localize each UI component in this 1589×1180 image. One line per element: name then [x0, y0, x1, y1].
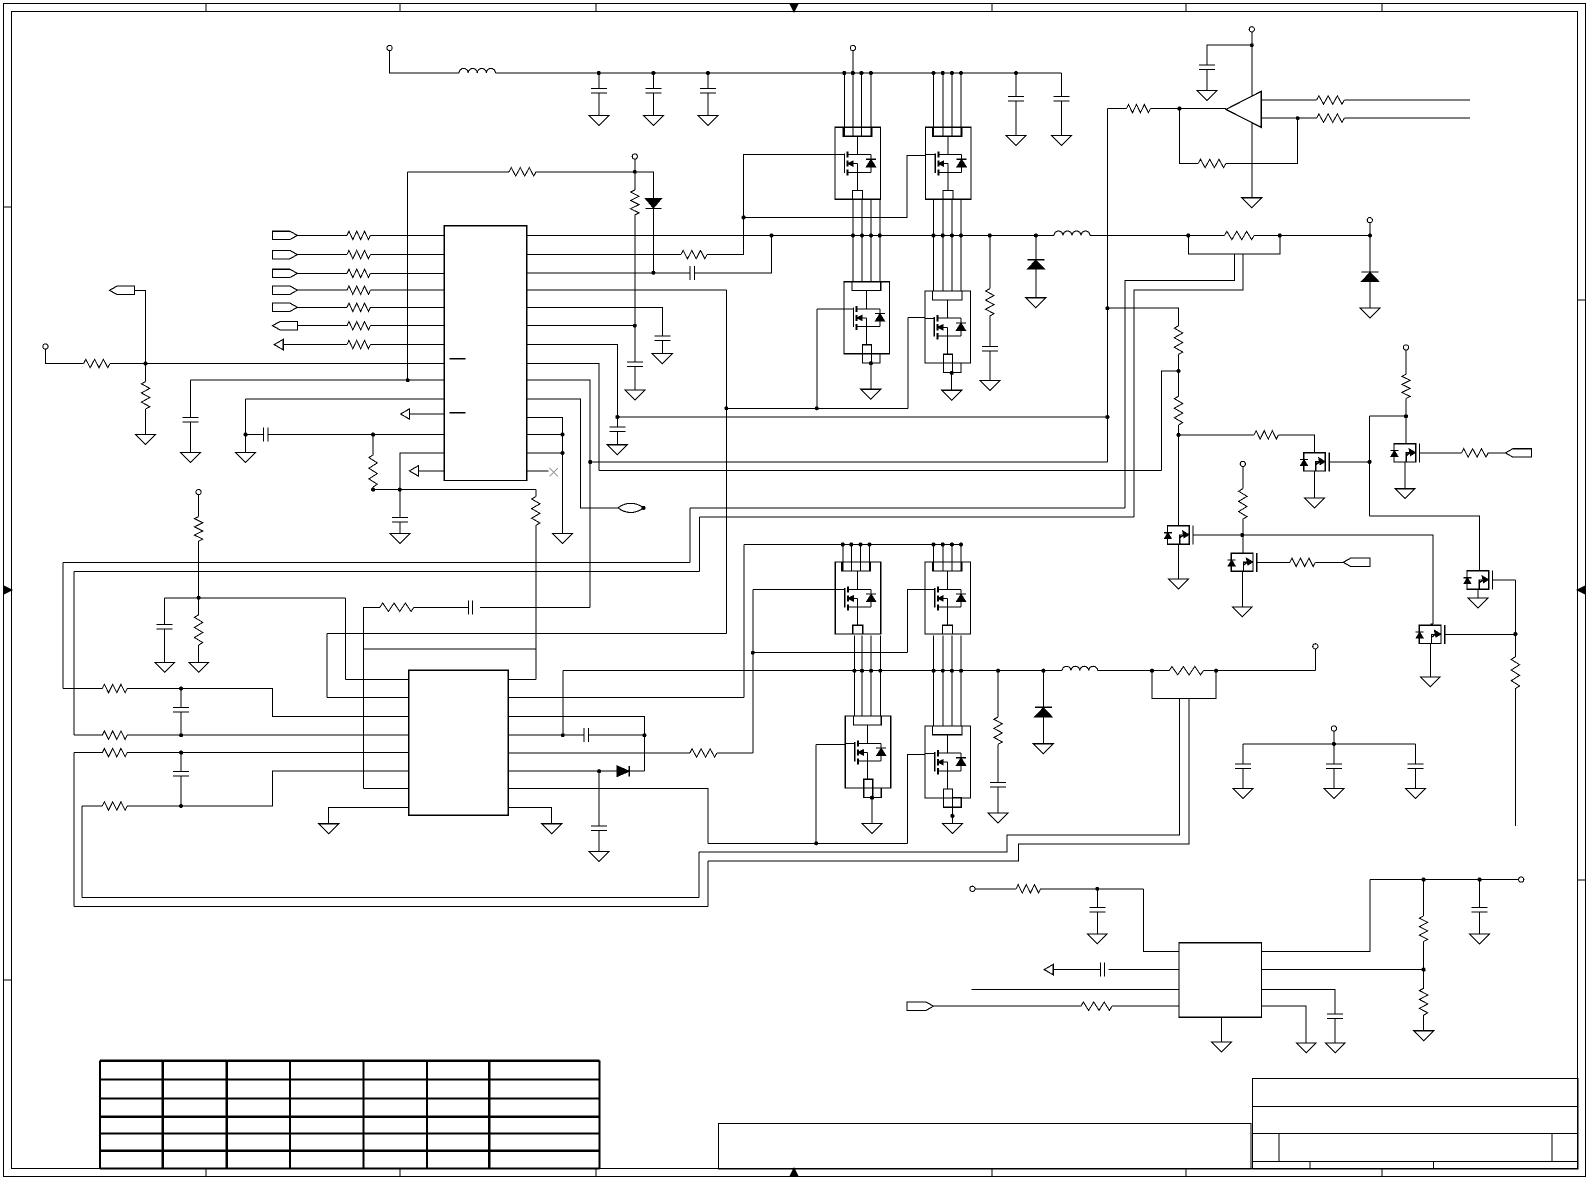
wire: [951, 373, 953, 390]
ground: [1305, 498, 1325, 508]
wire: [870, 635, 872, 716]
junction: [941, 234, 945, 238]
junction: [1105, 306, 1109, 310]
node terminal: [1313, 644, 1318, 649]
wire: [418, 470, 444, 472]
wire: [508, 717, 644, 736]
wire: [1042, 717, 1044, 744]
wire: [972, 989, 1180, 991]
wire: [399, 522, 401, 534]
capacitor C21: [990, 781, 1006, 783]
junction: [1422, 968, 1426, 972]
junction: [996, 669, 1000, 673]
wire: [535, 525, 537, 679]
junction: [615, 415, 619, 419]
wire: [1369, 416, 1371, 516]
junction: [988, 234, 992, 238]
wire: [908, 754, 925, 843]
junction: [851, 71, 855, 75]
wire: [414, 606, 468, 608]
wire: [81, 806, 83, 898]
resistor R48: [1081, 1002, 1112, 1010]
flag NRST triangle: [1044, 964, 1053, 974]
wire: [1329, 461, 1370, 463]
junction: [941, 669, 945, 673]
wire: [989, 351, 991, 381]
wire: [127, 771, 409, 806]
wire: [1220, 1017, 1222, 1042]
wire: [643, 735, 645, 771]
resistor R8: [84, 359, 110, 367]
wire: [527, 452, 563, 454]
transistor Q11: [1300, 452, 1329, 471]
flag GP1: [1343, 558, 1370, 566]
wire: [1178, 425, 1180, 526]
ground: [589, 852, 609, 862]
pin mark: [450, 412, 466, 414]
ground: [319, 824, 339, 834]
resistor R5: [347, 303, 370, 311]
junction: [244, 433, 248, 437]
wire: [815, 745, 817, 844]
wire: [268, 434, 444, 436]
resistor R31: [1317, 96, 1345, 104]
resistor R10: [681, 250, 707, 258]
wire: [634, 367, 636, 391]
wire: [1242, 535, 1433, 624]
inductor L1: [459, 68, 496, 73]
wire: [634, 159, 636, 190]
flag GP2: [1505, 449, 1531, 457]
wire: [997, 744, 999, 782]
wire: [842, 545, 844, 572]
flag PG: [907, 1002, 934, 1010]
wire: [860, 73, 862, 136]
wire: [190, 422, 192, 452]
junction: [179, 751, 183, 755]
wire: [283, 344, 347, 346]
wire: [1477, 589, 1479, 598]
wire: [326, 633, 328, 697]
wire: [997, 671, 999, 717]
junction: [642, 506, 646, 510]
wire: [1207, 45, 1252, 65]
junction: [932, 543, 936, 547]
wire: [1344, 117, 1470, 119]
wire: [1261, 99, 1316, 101]
resistor R1: [347, 231, 370, 239]
resistor R44: [1511, 657, 1519, 689]
junction: [842, 71, 846, 75]
wire: [870, 73, 872, 136]
wire: [1096, 912, 1098, 934]
wire: [408, 171, 509, 173]
wire: [588, 734, 644, 736]
wire: [74, 734, 103, 736]
wire: [1035, 236, 1037, 260]
wire: [997, 787, 999, 813]
junction: [860, 234, 864, 238]
wire: [1262, 990, 1336, 1015]
capacitor C17: [180, 689, 182, 708]
junction: [878, 234, 882, 238]
wire: [145, 364, 147, 382]
node VOUT terminal: [1519, 877, 1524, 882]
ground: [1324, 789, 1344, 799]
wire: [879, 635, 881, 716]
wire: [372, 435, 374, 455]
wire: [869, 545, 871, 572]
wire: [816, 744, 845, 746]
wire bus: [74, 570, 700, 572]
wire: [1423, 880, 1425, 916]
wire: [198, 495, 200, 517]
junction: [770, 234, 774, 238]
junction: [950, 669, 954, 673]
wire: [110, 363, 444, 365]
ground: [862, 823, 882, 833]
wire: [364, 607, 380, 788]
capacitor C25: [1099, 963, 1101, 977]
wire: [527, 289, 726, 291]
wire: [616, 417, 618, 427]
resistor R3: [347, 269, 370, 277]
junction: [950, 71, 954, 75]
flag OUT1: [273, 322, 298, 330]
ground: [1296, 1043, 1316, 1053]
wire: [1488, 452, 1505, 454]
ground: [1242, 198, 1262, 208]
wire: [951, 545, 953, 572]
ground: [1414, 1031, 1434, 1041]
wire bus: [74, 906, 708, 908]
wire: [527, 254, 681, 256]
wire: [843, 73, 845, 136]
wire: [562, 670, 564, 735]
wire: [1053, 969, 1100, 971]
wire: [744, 544, 963, 546]
ground: [643, 116, 663, 126]
capacitor C23: [1472, 906, 1488, 908]
wire: [1370, 516, 1480, 570]
wire: [373, 489, 536, 491]
wire: [1096, 889, 1098, 908]
wire: [527, 399, 618, 508]
resistor R15: [532, 497, 540, 526]
wire: [527, 272, 690, 274]
wire: [1150, 108, 1226, 110]
ground: [698, 116, 718, 126]
junction: [651, 71, 655, 75]
IC U2: [409, 670, 509, 815]
wire: [346, 678, 409, 680]
wire: [1369, 281, 1371, 308]
wire phase rail 2: [563, 670, 1062, 672]
wire: [694, 236, 771, 273]
wire: [852, 199, 854, 281]
wire: [753, 652, 908, 654]
node terminal: [1403, 345, 1408, 350]
transistor module Q2: [926, 127, 972, 199]
diode D3: [645, 199, 661, 209]
wire bus: [690, 507, 1125, 509]
resistor R23: [690, 749, 717, 757]
wire bus: [699, 516, 1134, 518]
wire: [1203, 670, 1315, 672]
resistor R20: [102, 731, 127, 739]
wire: [508, 752, 689, 754]
transistor Q9: [1164, 526, 1193, 545]
wire: [1370, 879, 1519, 881]
junction: [724, 406, 728, 410]
ground: [1468, 598, 1488, 608]
resistor R21: [102, 748, 127, 756]
capacitor C7: [1199, 64, 1215, 66]
diode D5: [1035, 706, 1052, 708]
wire: [527, 470, 549, 472]
wire: [1241, 572, 1243, 607]
junction: [406, 378, 410, 382]
resistor R36: [1174, 396, 1182, 425]
wire: [1152, 671, 1216, 699]
diode D4: [617, 766, 629, 776]
wire: [870, 363, 872, 389]
resistor R43: [1462, 449, 1489, 457]
capacitor: [1415, 744, 1417, 764]
wire: [245, 399, 247, 452]
wire: [960, 635, 962, 726]
wire: [989, 236, 991, 289]
wire: [536, 171, 635, 173]
no-connect: [549, 468, 557, 476]
inductor L2: [1054, 231, 1090, 236]
wire: [1430, 623, 1433, 625]
junction: [1332, 742, 1336, 746]
resistor R42: [1402, 374, 1410, 398]
wire: [707, 861, 709, 907]
resistor R13: [631, 190, 639, 215]
wire: [508, 807, 551, 823]
resistor R14: [369, 455, 377, 487]
wire: [1370, 415, 1406, 417]
flag FB triangle: [401, 409, 410, 419]
wire: [1243, 743, 1416, 745]
wire: [1143, 889, 1179, 952]
wire: [127, 734, 409, 736]
junction: [633, 170, 637, 174]
wire: [1423, 1015, 1425, 1031]
wire: [527, 325, 635, 327]
junction: [814, 841, 818, 845]
node VIN terminal: [970, 886, 975, 891]
wire: [297, 289, 347, 291]
junction: [859, 543, 863, 547]
wire: [400, 453, 445, 490]
wire: [852, 73, 854, 136]
wire: [1420, 452, 1462, 454]
wire: [951, 635, 953, 726]
wire: [743, 545, 745, 698]
resistor R46: [1419, 916, 1427, 942]
wire: [74, 752, 103, 754]
junction: [868, 543, 872, 547]
resistor R16: [380, 603, 414, 611]
junction: [869, 669, 873, 673]
wire: [45, 349, 83, 363]
ground: [1197, 91, 1217, 101]
ferrite bead FB1: [618, 503, 644, 512]
wire: [717, 752, 753, 754]
wire: [198, 598, 200, 615]
wire: [345, 598, 347, 680]
wire: [297, 272, 347, 274]
wire: [527, 434, 563, 436]
node terminal: [1240, 461, 1245, 466]
wire: [1179, 109, 1198, 164]
transistor module Q5: [835, 562, 881, 634]
junction: [561, 433, 565, 437]
wire: [933, 635, 935, 726]
wire: [951, 199, 953, 291]
wire: [708, 699, 1189, 861]
ground: [553, 534, 573, 544]
ground: [136, 434, 156, 444]
wire: [689, 508, 691, 563]
junction: [1250, 43, 1254, 47]
IC U4 regulator: [1179, 943, 1262, 1018]
node VDRAIN1 terminal: [850, 45, 855, 50]
wire: [698, 852, 700, 898]
wire: [699, 699, 1179, 853]
wire: [708, 842, 908, 844]
junction: [561, 733, 565, 737]
ground: [942, 823, 962, 833]
resistor R7: [347, 340, 370, 348]
wire: [860, 545, 862, 572]
junction: [841, 543, 845, 547]
wire: [1404, 462, 1406, 489]
wire: [1429, 644, 1431, 677]
wire: [1262, 969, 1424, 971]
flag IN1: [272, 231, 297, 239]
junction: [1177, 369, 1181, 373]
wire: [908, 590, 925, 653]
wire: [410, 413, 445, 415]
wire: [508, 696, 744, 698]
capacitor C18: [180, 753, 182, 772]
ground: [980, 381, 1000, 391]
junction: [869, 71, 873, 75]
wire: [1445, 633, 1516, 635]
capacitor: [1242, 744, 1244, 764]
wire: [407, 172, 409, 380]
wire: [164, 629, 166, 662]
wire: [1514, 689, 1516, 826]
wire: [951, 807, 953, 823]
wire: [298, 325, 348, 327]
wire: [907, 317, 909, 408]
wire: [960, 73, 962, 136]
node VCC terminal: [632, 154, 637, 159]
ground: [1325, 1043, 1345, 1053]
wire: [1261, 117, 1316, 119]
resistor R17: [194, 517, 202, 542]
capacitor C5: [1060, 73, 1062, 96]
wire: [698, 517, 700, 571]
wire: [1042, 671, 1044, 708]
junction: [950, 543, 954, 547]
ground: [1006, 136, 1026, 146]
wire: [960, 199, 962, 291]
wire: [1125, 254, 1234, 508]
resistor R40: [1239, 489, 1247, 520]
resistor R45: [1016, 885, 1041, 893]
junction: [932, 234, 936, 238]
junction: [851, 234, 855, 238]
resistor R22: [102, 802, 127, 810]
transistor Q10: [1228, 553, 1257, 572]
wire: [198, 541, 200, 598]
wire: [1278, 435, 1314, 452]
wire: [62, 563, 64, 689]
wire: [661, 340, 663, 353]
wire: [496, 72, 1062, 74]
ground: [181, 452, 201, 462]
wire: [127, 689, 409, 717]
wire: [933, 545, 935, 572]
wire: [370, 234, 444, 236]
capacitor C12: [654, 335, 670, 337]
node terminal: [1331, 726, 1336, 731]
transistor module Q3: [844, 282, 890, 363]
revision table: [99, 1061, 101, 1169]
resistor R19: [102, 684, 127, 692]
wire: [635, 172, 654, 199]
wire: [1315, 561, 1343, 563]
flag IN3: [272, 269, 297, 277]
wire: [1109, 969, 1180, 971]
wire: [816, 309, 818, 408]
wire: [73, 571, 75, 735]
junction: [371, 433, 375, 437]
wire: [934, 1005, 1081, 1007]
resistor R4: [347, 286, 370, 294]
ground: [1470, 934, 1490, 944]
wire: [652, 209, 654, 273]
junction: [1014, 71, 1018, 75]
ground: [1233, 789, 1253, 799]
resistor R6: [347, 322, 370, 330]
wire: [1206, 69, 1208, 90]
node terminal: [196, 490, 201, 495]
wire: [1493, 579, 1516, 581]
wire: [1479, 912, 1481, 934]
wire: [508, 734, 584, 736]
wire bus: [599, 469, 1161, 471]
junction: [941, 71, 945, 75]
node terminal: [43, 344, 48, 349]
resistor R30 shunt: [1224, 231, 1254, 239]
wire: [951, 73, 953, 136]
ground: [1232, 607, 1252, 617]
junction: [144, 362, 148, 366]
capacitor C22: [1089, 906, 1105, 908]
transistor module Q1: [835, 127, 881, 199]
junction: [941, 543, 945, 547]
wire: [527, 364, 599, 471]
wire: [1254, 235, 1370, 237]
resistor R35: [1174, 326, 1182, 355]
